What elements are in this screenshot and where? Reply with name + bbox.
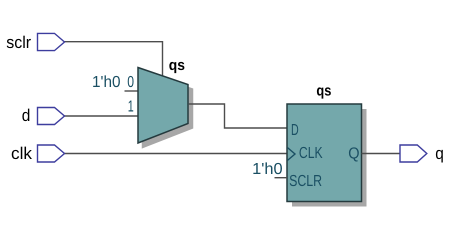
svg-text:Q: Q bbox=[348, 146, 359, 163]
wire constant to SCLR bbox=[275, 177, 288, 179]
wire Q output net bbox=[362, 153, 401, 155]
output port q bbox=[400, 145, 427, 162]
svg-text:qs: qs bbox=[316, 83, 331, 100]
wire clk net bbox=[65, 153, 287, 155]
svg-text:d: d bbox=[22, 106, 31, 125]
mux shadow bbox=[143, 72, 193, 148]
svg-text:1'h0: 1'h0 bbox=[92, 74, 121, 91]
svg-text:1'h0: 1'h0 bbox=[252, 161, 283, 178]
clock triangle bbox=[288, 148, 296, 161]
svg-text:CLK: CLK bbox=[299, 145, 323, 162]
wire d net bbox=[65, 115, 139, 117]
register qs bbox=[287, 104, 362, 202]
wire sclr net bbox=[65, 42, 163, 76]
svg-text:1: 1 bbox=[128, 98, 134, 115]
svg-text:qs: qs bbox=[169, 57, 185, 74]
input port clk bbox=[38, 145, 65, 162]
mux M0 qs bbox=[138, 68, 188, 144]
svg-text:SCLR: SCLR bbox=[289, 173, 322, 190]
svg-text:clk: clk bbox=[11, 144, 33, 163]
svg-text:q: q bbox=[435, 144, 444, 163]
svg-text:0: 0 bbox=[127, 74, 134, 91]
wire constant to mux input 0 bbox=[125, 90, 139, 92]
svg-text:sclr: sclr bbox=[6, 33, 31, 52]
wire mux output to register D bbox=[189, 104, 287, 128]
input port d bbox=[38, 108, 65, 125]
svg-text:D: D bbox=[291, 122, 299, 139]
input port sclr bbox=[38, 33, 65, 50]
register shadow bbox=[292, 109, 367, 207]
